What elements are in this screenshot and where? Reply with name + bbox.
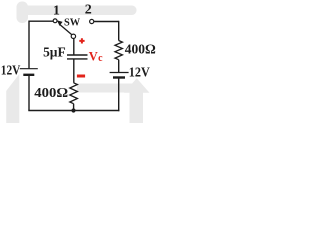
- watermark top-left blob: [17, 2, 29, 24]
- switch SW blade arrowhead: [57, 20, 63, 26]
- wire top-left segment: [29, 20, 53, 22]
- battery B2 12V right long plate: [110, 72, 129, 74]
- resistor R1 400ohm right zigzag: [115, 41, 122, 60]
- wire top-right segment: [94, 21, 119, 23]
- switch SW blade wire: [60, 24, 73, 35]
- svg-text:400Ω: 400Ω: [125, 42, 156, 57]
- switch pivot circle: [71, 34, 75, 38]
- svg-text:400Ω: 400Ω: [34, 86, 68, 101]
- watermark top bar: [20, 6, 137, 16]
- svg-text:2: 2: [85, 3, 92, 18]
- node 1 terminal circle: [53, 19, 57, 23]
- label minus red: [77, 75, 85, 78]
- capacitor C1 top plate: [67, 54, 88, 56]
- svg-text:5µF: 5µF: [43, 46, 66, 61]
- svg-text:c: c: [98, 53, 103, 64]
- svg-text:12V: 12V: [1, 64, 21, 79]
- battery B2 12V right short plate: [113, 76, 125, 78]
- battery B1 12V left short plate: [23, 74, 34, 76]
- watermark arrow head: [124, 78, 150, 93]
- wire right vertical upper: [118, 21, 120, 41]
- capacitor C1 bottom plate: [67, 58, 88, 60]
- svg-text:V: V: [89, 50, 98, 64]
- resistor R2 400ohm bottom zigzag: [70, 83, 78, 104]
- wire bottom: [28, 110, 119, 112]
- battery B1 12V left long plate: [20, 68, 38, 70]
- wire right middle: [118, 60, 120, 73]
- label plus red: [79, 38, 84, 43]
- junction node dot: [71, 108, 75, 112]
- wire left vertical: [28, 21, 30, 69]
- watermark mid band: [77, 84, 132, 93]
- svg-text:SW: SW: [64, 17, 81, 28]
- wire resistor to bottom: [73, 104, 75, 111]
- watermark bottom-left bar: [6, 74, 19, 123]
- node 2 terminal circle: [90, 19, 94, 23]
- wire switch pivot to capacitor: [73, 39, 75, 55]
- watermark arrow shaft: [130, 91, 144, 123]
- svg-text:12V: 12V: [129, 66, 150, 81]
- wire capacitor to resistor: [73, 59, 75, 83]
- wire right vertical lower: [118, 78, 120, 112]
- svg-text:1: 1: [53, 3, 60, 18]
- wire left vertical lower: [28, 75, 30, 111]
